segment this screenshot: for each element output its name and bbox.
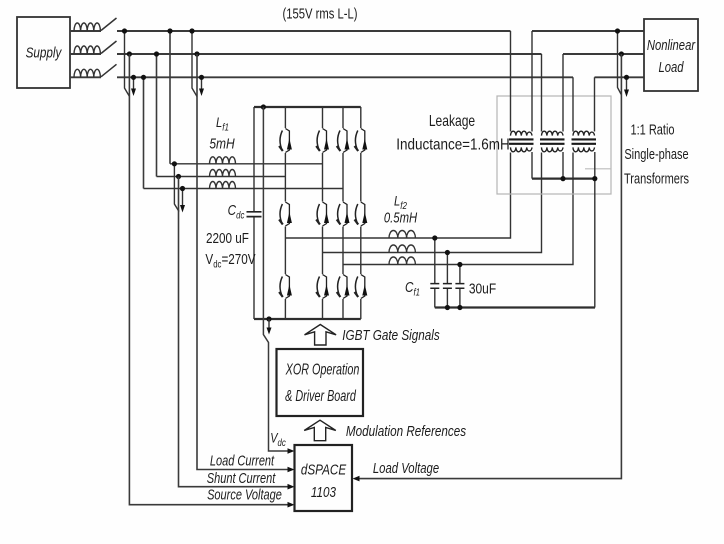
svg-text:(155V rms L-L): (155V rms L-L) [283,5,358,22]
inductor Lf1 phase B [210,170,236,177]
svg-text:2200 uF: 2200 uF [206,230,249,247]
wire: load current to dSPACE [197,54,288,470]
svg-text:30uF: 30uF [469,280,496,297]
inverter bottom bus [254,318,361,320]
IGBT Q5 [279,202,292,226]
inverter leg 4 wire [360,107,362,319]
XOR operation box [277,349,364,416]
source inductor phase 3 [74,69,100,77]
dSPACE box [295,445,353,511]
node phaseB x178.5 [176,174,181,179]
svg-text:XOR Operation: XOR Operation [285,360,359,378]
IGBT Q9 [279,275,292,299]
IGBT gate signals block arrow [305,325,337,346]
node line3 x143.5 [141,75,146,80]
inductor Lf2 phase C [389,257,415,265]
svg-text:Transformers: Transformers [624,170,689,187]
wire: inverter output phase A [285,153,510,239]
load voltage measure arrowhead [626,77,628,90]
wire: T3 primary risers [573,77,595,131]
IGBT Q6 [316,202,329,226]
wire: phase1 drop to filter [169,31,171,164]
gray inner wire [585,168,611,170]
inverter leg 2 wire [322,107,324,319]
switch phase 3 [101,64,117,77]
wire: T2 secondary right drop [562,152,564,179]
modulation references block arrow [304,420,336,441]
node line3 x133.5 [131,75,136,80]
inductor Lf1 phase A [210,157,236,164]
inductor Lf2 phase A [389,230,415,238]
node line2 x129.4 [127,51,132,56]
IGBT Q8 [355,202,368,226]
IGBT Q3 [337,129,350,153]
node output C x459.9 [457,262,462,267]
svg-text:& Driver Board: & Driver Board [285,387,356,405]
IGBT Q1 [279,129,292,153]
wire: T1 secondary right drop [531,152,533,179]
node phaseC x182.5 [180,186,185,191]
node rail x459.9 [457,305,462,310]
inverter leg 3 wire [342,107,344,319]
wire: load voltage to dSPACE [359,54,621,479]
node phaseA x174.4 [172,161,177,166]
capacitor Cdc branch wire [253,107,255,319]
IGBT Q12 [355,275,368,299]
wire: phase 3 supply segment [71,76,573,78]
svg-text:0.5mH: 0.5mH [384,209,418,226]
svg-text:5mH: 5mH [209,135,234,152]
inductor Lf1 phase C [210,182,236,189]
inverter leg 1 wire [284,107,286,319]
inductor Lf2 phase B [389,245,415,253]
node line2 x621.4 [619,51,624,56]
wire: secondary common bus [532,178,596,180]
Vdc measure arrowhead [268,319,270,328]
shunt current measure arrowhead [182,189,184,206]
wire: T3 secondary right drop to rail [594,152,596,308]
wire: phase 1 supply segment [71,30,511,32]
supply box [17,17,70,88]
IGBT Q11 [337,275,350,299]
IGBT Q10 [316,275,329,299]
wire: phase 1 load segment [532,30,644,32]
svg-text:Inductance=1.6mH: Inductance=1.6mH [396,137,509,154]
svg-text:IGBT Gate Signals: IGBT Gate Signals [342,327,440,344]
node top bus x263.4 [261,104,266,109]
svg-text:Source Voltage: Source Voltage [207,486,282,503]
svg-text:dSPACE: dSPACE [301,461,347,478]
svg-text:Nonlinear: Nonlinear [647,36,696,53]
wire: filter phase B line [157,176,286,178]
source inductor phase 2 [74,46,100,54]
switch phase 1 [101,18,117,31]
node sec bus x563 [560,176,565,181]
capacitor Cf1 branch 2 [446,253,448,308]
capacitor Cf1 branch 1 [434,238,436,308]
node output B x447.4 [445,250,450,255]
IGBT Q4 [355,129,368,153]
svg-text:Vdc=270V: Vdc=270V [205,251,255,270]
wire: phase 2 supply segment [71,53,542,55]
svg-text:Load: Load [658,58,684,75]
switch phase 2 [101,41,117,54]
shunt current measure arrow bent line [174,164,179,212]
svg-text:Leakage: Leakage [429,112,476,130]
Vdc measure bent wire to dSPACE [263,107,288,451]
nonlinear load box [644,19,698,91]
node line3 x626.5 [624,75,629,80]
source voltage measure arrow bent line [125,31,130,97]
svg-text:Supply: Supply [26,44,63,61]
IGBT Q2 [316,129,329,153]
transformer T2 [540,131,565,152]
svg-text:Load Voltage: Load Voltage [373,460,439,477]
node line1 x124.5 [122,28,127,33]
svg-text:Lf2: Lf2 [394,193,407,210]
wire: phase2 drop to filter [156,54,158,177]
wire: T2 primary risers [542,54,564,132]
svg-text:Modulation References: Modulation References [346,423,466,440]
wire: phase 2 load segment [563,53,644,55]
wire: filter phase C line [144,188,344,190]
node line1 x170 [167,28,172,33]
load current measure arrow bent line [192,31,197,97]
transformer T3 [572,131,597,152]
wire: inverter output phase B [323,153,542,253]
capacitor Cdc plates [247,212,262,217]
node line1 x617.5 [615,28,620,33]
node line2 x197 [194,51,199,56]
transformer gray box [497,96,611,194]
source voltage measure arrowhead [133,77,135,89]
node rail x447.4 [445,305,450,310]
transformer T1 [509,131,534,152]
svg-text:Single-phase: Single-phase [624,145,688,162]
wire: inverter output phase C [343,153,573,265]
IGBT Q7 [337,202,350,226]
wire: phase 3 load segment [595,76,645,78]
source inductor phase 1 [74,23,100,31]
node bottom bus x269 [266,316,271,321]
wire: phase3 drop to filter [143,77,145,188]
wire: T1 primary risers [511,31,533,132]
svg-text:1:1 Ratio: 1:1 Ratio [630,121,674,138]
capacitor Cf1 branch 3 [459,265,461,308]
load current measure arrowhead [201,77,203,89]
inverter top bus [254,106,361,108]
wire: shunt current to dSPACE [179,177,289,487]
svg-text:Vdc: Vdc [270,430,286,447]
load voltage measure arrow bent line [618,31,622,95]
node line2 x156.5 [154,51,159,56]
node line3 x201.5 [199,75,204,80]
svg-text:Shunt Current: Shunt Current [207,469,277,486]
node line1 x192 [189,28,194,33]
svg-text:Load Current: Load Current [210,452,275,469]
wire: filter phase A line [170,163,323,165]
node sec bus x594.8 [592,176,597,181]
svg-text:1103: 1103 [311,484,337,501]
wire: capacitor common rail [435,306,595,308]
svg-text:Cdc: Cdc [228,202,245,221]
svg-text:Cf1: Cf1 [405,279,420,298]
node output A x434.8 [432,235,437,240]
svg-text:Lf1: Lf1 [216,115,229,132]
wire: source voltage to dSPACE [129,54,288,505]
